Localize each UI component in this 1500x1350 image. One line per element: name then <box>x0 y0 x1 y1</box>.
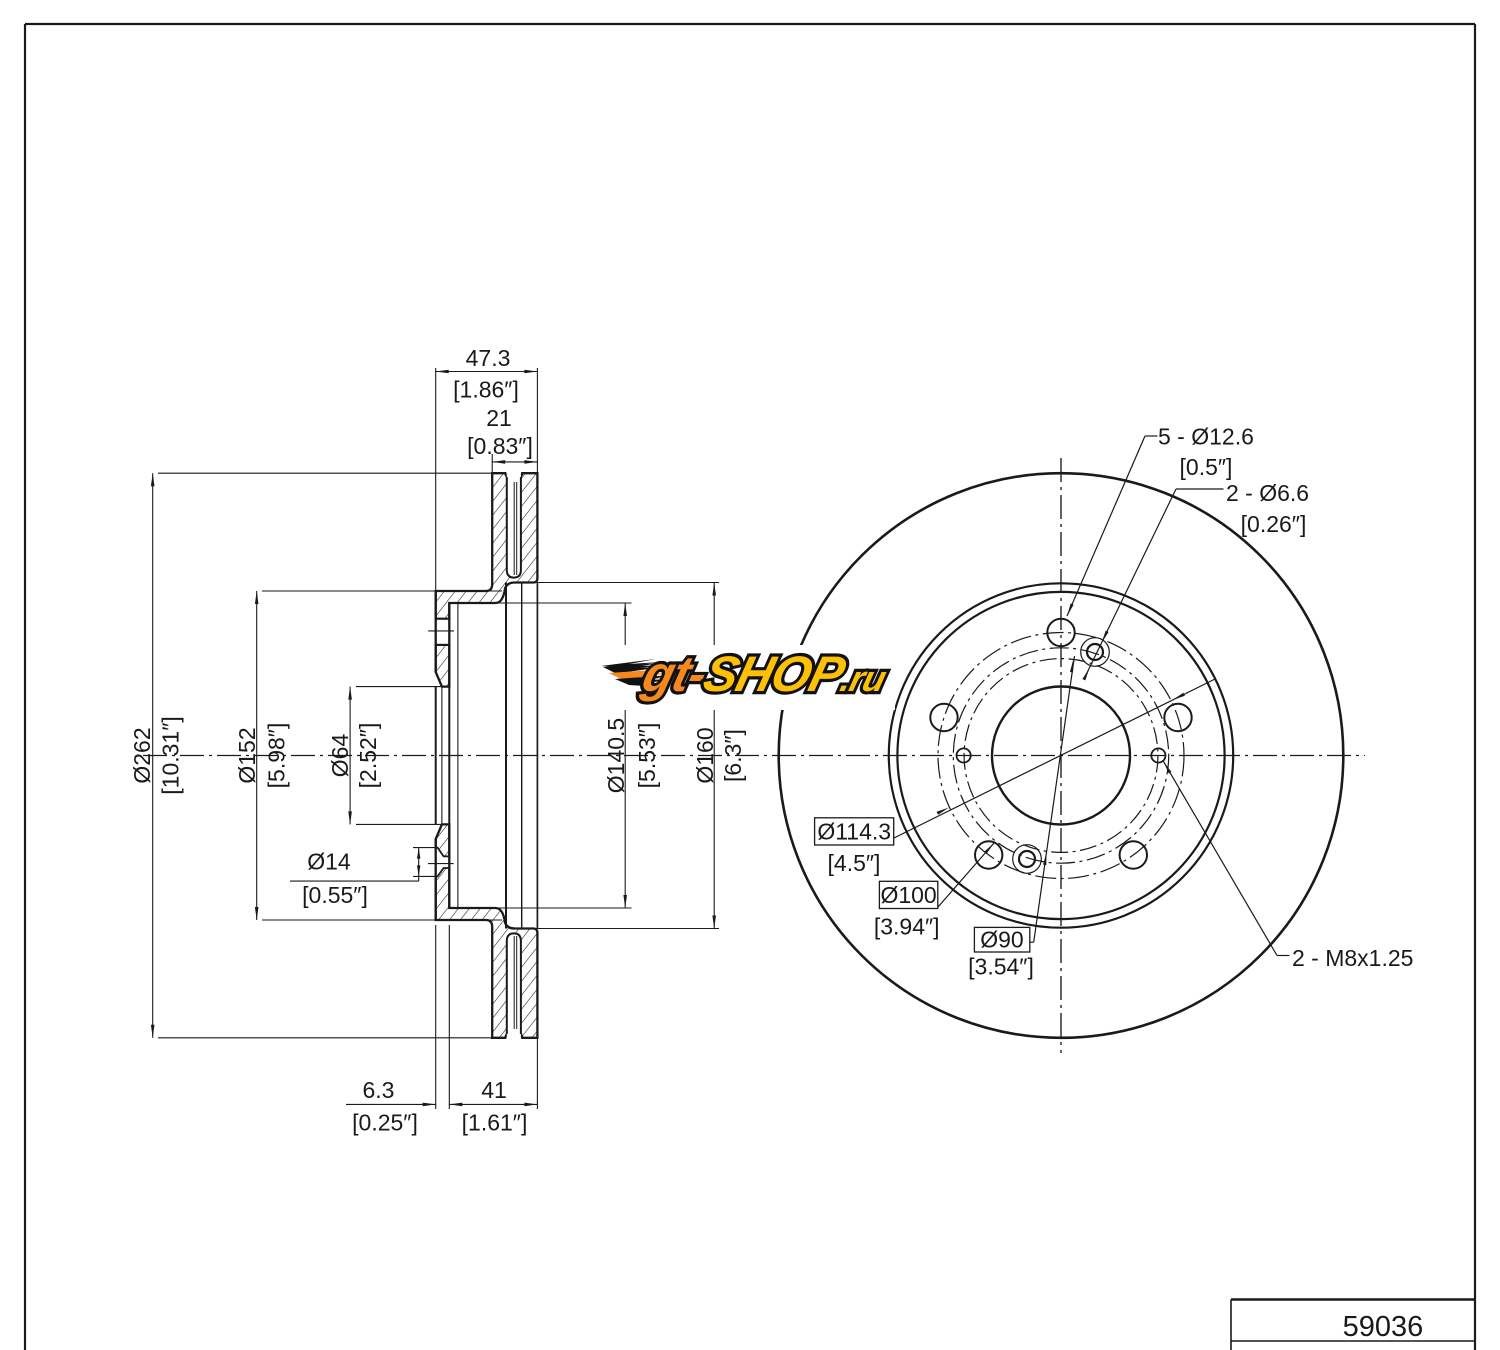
svg-text:Ø262: Ø262 <box>129 727 155 783</box>
svg-text:2 - M8x1.25: 2 - M8x1.25 <box>1292 945 1413 971</box>
svg-text:[0.25″]: [0.25″] <box>352 1110 418 1136</box>
svg-text:[3.54″]: [3.54″] <box>968 954 1034 980</box>
svg-text:[5.53″]: [5.53″] <box>634 723 660 789</box>
svg-text:41: 41 <box>481 1077 507 1103</box>
svg-text:2 - Ø6.6: 2 - Ø6.6 <box>1226 480 1309 506</box>
svg-text:[5.98″]: [5.98″] <box>264 723 290 789</box>
svg-text:[4.5″]: [4.5″] <box>828 850 881 876</box>
svg-text:[1.61″]: [1.61″] <box>462 1110 528 1136</box>
svg-text:[6.3″]: [6.3″] <box>720 729 746 782</box>
svg-text:21: 21 <box>486 405 512 431</box>
svg-text:[0.55″]: [0.55″] <box>302 882 368 908</box>
svg-text:[10.31″]: [10.31″] <box>158 716 184 794</box>
svg-text:[2.52″]: [2.52″] <box>355 723 381 789</box>
svg-text:[0.26″]: [0.26″] <box>1241 511 1307 537</box>
svg-text:5 - Ø12.6: 5 - Ø12.6 <box>1158 424 1254 450</box>
svg-text:6.3: 6.3 <box>363 1077 395 1103</box>
svg-text:[0.5″]: [0.5″] <box>1180 454 1233 480</box>
svg-text:Ø14: Ø14 <box>307 849 351 875</box>
svg-text:47.3: 47.3 <box>466 345 511 371</box>
svg-text:[1.86″]: [1.86″] <box>453 377 519 403</box>
svg-text:59036: 59036 <box>1343 1311 1424 1343</box>
svg-text:[3.94″]: [3.94″] <box>874 914 940 940</box>
svg-text:Ø160: Ø160 <box>692 727 718 783</box>
svg-text:Ø64: Ø64 <box>327 734 353 778</box>
svg-text:Ø152: Ø152 <box>234 727 260 783</box>
svg-text:Ø90: Ø90 <box>980 927 1023 953</box>
svg-text:Ø100: Ø100 <box>880 882 936 908</box>
svg-text:Ø114.3: Ø114.3 <box>817 819 891 845</box>
svg-text:Ø140.5: Ø140.5 <box>603 718 629 793</box>
svg-text:[0.83″]: [0.83″] <box>467 433 533 459</box>
